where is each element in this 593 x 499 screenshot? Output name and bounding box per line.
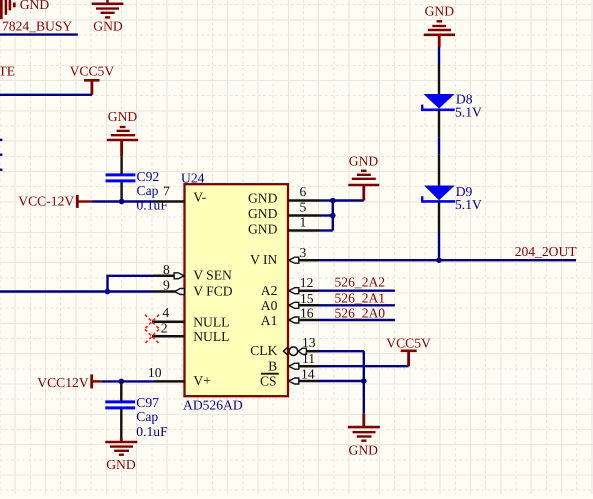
svg-text:9: 9	[163, 278, 170, 293]
svg-text:204_2OUT: 204_2OUT	[515, 244, 578, 259]
capacitor C97	[105, 381, 135, 438]
svg-text:11: 11	[302, 351, 315, 366]
ground (top-middle)	[92, 0, 124, 17]
pin 6 (GND)	[248, 184, 321, 205]
ground (above C92, inverted)	[107, 127, 138, 156]
svg-text:GND: GND	[349, 442, 379, 457]
svg-text:VCC12V: VCC12V	[37, 375, 89, 390]
svg-text:0.1uF: 0.1uF	[137, 198, 169, 213]
wire VCC-12V to pin 7	[92, 200, 155, 202]
svg-text:0.1uF: 0.1uF	[136, 424, 168, 439]
label D8	[456, 91, 473, 106]
svg-text:GND: GND	[108, 109, 138, 124]
capacitor C92	[106, 156, 136, 201]
wire stub (left edge, row 1)	[0, 139, 2, 141]
svg-text:16: 16	[300, 306, 314, 321]
svg-text:B: B	[268, 359, 277, 374]
svg-text:VCC5V: VCC5V	[386, 336, 431, 351]
net label 7824_BUSY	[2, 18, 72, 33]
svg-text:5.1V: 5.1V	[455, 197, 482, 212]
wire vertical CLK/CS bus	[363, 351, 365, 413]
no-ERC cross on pin 2	[145, 329, 159, 343]
svg-text:6: 6	[300, 184, 307, 199]
pin 7 (V-)	[155, 183, 207, 204]
svg-text:GND: GND	[248, 206, 278, 221]
label C97	[136, 395, 159, 410]
svg-text:A2: A2	[261, 283, 278, 298]
svg-text:A1: A1	[261, 313, 278, 328]
wire CLK to vertical	[319, 350, 364, 352]
wire pin1 to junction	[321, 229, 333, 231]
svg-text:GND: GND	[20, 0, 50, 12]
svg-text:7824_BUSY: 7824_BUSY	[2, 18, 72, 33]
net label TE (clipped at left edge)	[0, 63, 15, 78]
junction (zener column / V IN wire)	[436, 257, 442, 263]
power port VCC5V (top-left)	[70, 63, 115, 94]
junction (pin6 row)	[330, 198, 336, 204]
svg-text:1: 1	[300, 215, 307, 230]
zener diode D9	[421, 154, 455, 231]
svg-text:2: 2	[161, 320, 168, 335]
svg-text:GND: GND	[425, 3, 455, 18]
svg-text:V IN: V IN	[250, 252, 277, 267]
svg-text:526_2A2: 526_2A2	[335, 274, 386, 289]
ground (top-right, inverted)	[424, 21, 455, 47]
svg-text:CS: CS	[260, 373, 277, 388]
svg-text:Cap: Cap	[137, 183, 159, 198]
svg-text:15: 15	[300, 291, 314, 306]
pin 4 (NULL)	[152, 305, 229, 329]
wire pin6 to junction	[321, 199, 333, 201]
ground (bottom-left)	[105, 438, 137, 455]
wire to pin 9 (long)	[0, 290, 153, 292]
svg-text:8: 8	[163, 262, 170, 277]
power port VCC12V	[37, 374, 101, 389]
label C92	[137, 169, 160, 184]
svg-text:526_2A1: 526_2A1	[335, 290, 386, 305]
pin 8 (V SEN)	[153, 262, 232, 283]
pin 9 (V FCD)	[153, 278, 233, 299]
wire branch to pin 8	[108, 276, 154, 292]
svg-text:A0: A0	[261, 298, 278, 313]
junction (C92 / V- wire)	[119, 199, 125, 205]
svg-text:GND: GND	[93, 18, 123, 33]
wire B to VCC5V	[319, 365, 409, 367]
svg-text:13: 13	[302, 335, 316, 350]
wire A1 net	[319, 319, 395, 321]
junction (pin5 row)	[330, 213, 336, 219]
svg-text:V+: V+	[193, 373, 210, 388]
wire vertical GND bus	[332, 201, 334, 231]
svg-text:5.1V: 5.1V	[455, 104, 482, 119]
pin 3 (V IN)	[250, 245, 318, 267]
pin 5 (GND)	[248, 200, 321, 221]
svg-text:V SEN: V SEN	[193, 268, 232, 283]
wire CS to vertical	[319, 380, 364, 382]
svg-text:14: 14	[301, 366, 315, 381]
net label GND (right of chip)	[349, 153, 379, 168]
net label 204_2OUT	[515, 244, 578, 259]
net label 526_2A0	[335, 305, 386, 320]
label Cap (C97)	[136, 409, 158, 424]
zener diode D8	[421, 64, 455, 137]
svg-text:V-: V-	[193, 190, 207, 205]
net label GND (top-right)	[425, 3, 455, 18]
ground (top-left, rotated, clipped by edge)	[1, 0, 14, 19]
part name AD526AD	[183, 398, 243, 413]
ground (bottom-middle)	[348, 413, 380, 441]
svg-text:NULL: NULL	[193, 314, 229, 329]
wire pin5 to junction	[321, 214, 333, 216]
power port VCC-12V	[18, 193, 92, 208]
wire A2 net	[319, 290, 395, 292]
svg-text:C92: C92	[137, 169, 160, 184]
junction (CS row)	[361, 378, 367, 384]
svg-text:CLK: CLK	[250, 343, 277, 358]
wire ground to D8	[438, 48, 440, 65]
svg-text:Cap: Cap	[136, 409, 158, 424]
svg-text:TE: TE	[0, 63, 15, 78]
svg-text:U24: U24	[181, 171, 205, 186]
svg-text:V FCD: V FCD	[193, 283, 233, 298]
svg-text:VCC-12V: VCC-12V	[18, 193, 74, 208]
svg-text:C97: C97	[136, 395, 159, 410]
net label GND (bottom-middle)	[349, 442, 379, 457]
svg-text:10: 10	[148, 365, 162, 380]
pin 12 (A2)	[261, 275, 319, 298]
label 5.1V (D8)	[455, 104, 482, 119]
svg-text:5: 5	[300, 200, 307, 215]
label 5.1V (D9)	[455, 197, 482, 212]
pin 10 (V+)	[148, 365, 211, 388]
label 0.1uF	[137, 198, 169, 213]
svg-text:GND: GND	[106, 457, 136, 472]
svg-text:AD526AD: AD526AD	[183, 398, 243, 413]
power port VCC5V (right)	[386, 336, 431, 367]
wire VCC12V to pin 10	[101, 380, 154, 382]
net label GND (bottom-left)	[106, 457, 136, 472]
wire D8 to D9	[438, 137, 440, 154]
label D9	[456, 184, 473, 199]
svg-text:GND: GND	[349, 153, 379, 168]
pin 16 (A1)	[261, 306, 319, 329]
svg-text:12: 12	[300, 275, 314, 290]
svg-text:NULL: NULL	[193, 329, 229, 344]
wire to chip ground symbol	[333, 199, 364, 201]
op-amp U24 AD526AD body	[185, 184, 289, 396]
pin 11 (B, active low)	[268, 351, 318, 374]
svg-text:GND: GND	[248, 222, 278, 237]
pin 2 (NULL)	[152, 320, 229, 344]
wire 7824_BUSY	[0, 33, 78, 35]
label 0.1uF (C97)	[136, 424, 168, 439]
wire stub (left edge, row 3)	[0, 169, 2, 171]
svg-text:GND: GND	[248, 191, 278, 206]
wire D9 to V IN wire	[438, 232, 440, 261]
net label GND (above C92)	[108, 109, 138, 124]
svg-text:3: 3	[300, 245, 307, 260]
net label 526_2A1	[335, 290, 386, 305]
pin 1 (GND)	[248, 215, 321, 237]
no-ERC cross on pin 4	[145, 315, 159, 329]
svg-text:4: 4	[162, 305, 169, 320]
ground (right of chip, inverted)	[348, 171, 379, 201]
pin 13 (CLK, clock input)	[250, 335, 318, 358]
junction (C97 / V+ wire)	[119, 379, 125, 385]
net label GND (top-middle)	[93, 18, 123, 33]
svg-text:VCC5V: VCC5V	[70, 63, 115, 78]
junction (pin 8 branch)	[105, 289, 111, 295]
label Cap	[137, 183, 159, 198]
wire stub (left edge, row 2)	[0, 153, 2, 155]
wire A0 net	[319, 304, 395, 306]
pin 15 (A0)	[261, 291, 319, 313]
pin 14 (CS, active low)	[260, 366, 319, 388]
net label 526_2A2	[335, 274, 386, 289]
svg-text:7: 7	[163, 183, 170, 198]
net label GND (top-left)	[20, 0, 50, 12]
svg-text:526_2A0: 526_2A0	[335, 305, 386, 320]
wire V IN to 204_2OUT	[319, 259, 577, 261]
wire to VCC5V	[0, 94, 92, 96]
designator U24	[181, 171, 205, 186]
